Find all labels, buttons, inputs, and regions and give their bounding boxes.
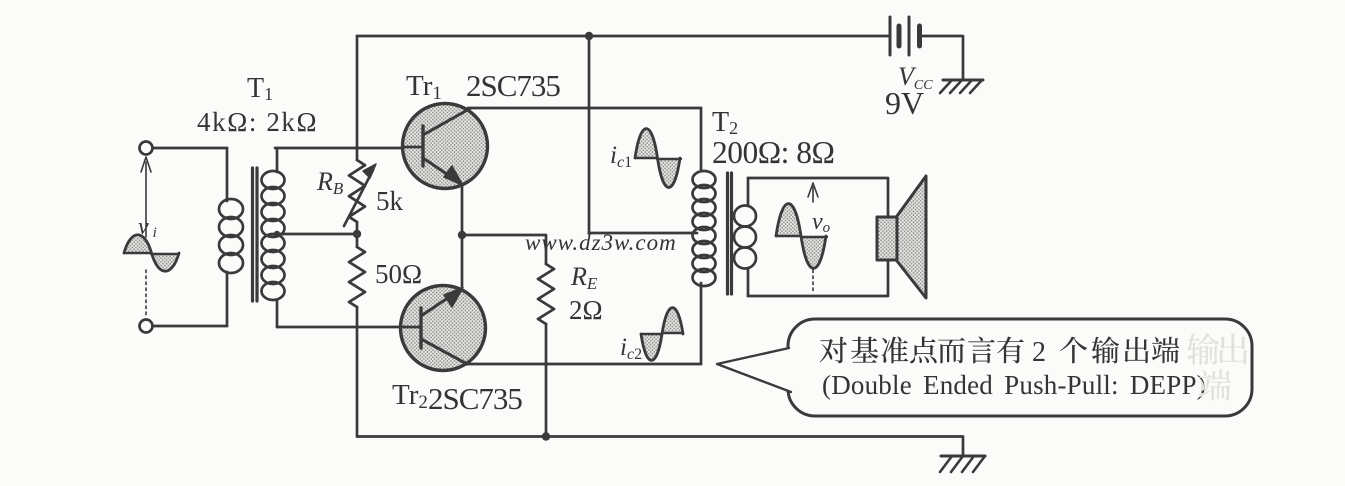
ground top right <box>940 80 983 93</box>
wire T1 center tap <box>277 233 357 236</box>
svg-text:2SC735: 2SC735 <box>466 68 560 103</box>
transistor Tr2 <box>401 286 486 371</box>
wire input bottom <box>153 325 227 328</box>
svg-text:RB: RB <box>316 167 344 198</box>
transformer T2 core <box>728 173 732 294</box>
svg-text:2: 2 <box>1032 337 1046 368</box>
svg-text:vi: vi <box>138 214 157 241</box>
ground bottom <box>940 456 985 472</box>
svg-text:T1: T1 <box>247 73 273 104</box>
svg-text:Tr1: Tr1 <box>406 70 442 104</box>
vo load box <box>748 178 888 296</box>
wire Tr1 collector <box>468 107 701 110</box>
faint watermark glyphs <box>1187 333 1219 365</box>
svg-text:RE: RE <box>570 262 598 293</box>
svg-text:www.dz3w.com: www.dz3w.com <box>525 230 677 255</box>
svg-text:Tr2: Tr2 <box>392 379 428 413</box>
vi sine <box>124 235 152 253</box>
wire battery to ground <box>921 36 963 80</box>
wire top left vertical <box>356 36 359 160</box>
resistor RE zigzag <box>538 264 554 324</box>
node emitter junction dot <box>458 231 466 239</box>
svg-text:4kΩ: 2kΩ: 4kΩ: 2kΩ <box>197 107 318 137</box>
wire RB to node <box>356 222 359 247</box>
transformer T2 primary <box>700 108 703 364</box>
resistor RB arrow <box>344 170 373 226</box>
resistor RB 5k zigzag <box>349 160 365 222</box>
node top rail dot <box>585 32 593 40</box>
svg-text:200Ω: 8Ω: 200Ω: 8Ω <box>712 135 834 170</box>
input terminal bottom <box>140 320 153 333</box>
wire input top <box>153 147 227 150</box>
ic1 sine <box>635 129 657 158</box>
wire Tr2 collector <box>467 363 701 366</box>
wire emitter node to RE <box>462 235 546 264</box>
wire Vcc feed vertical <box>589 36 697 233</box>
ic2 sine <box>641 334 662 360</box>
wire Tr1 emitter down <box>461 186 464 235</box>
battery Vcc <box>890 17 920 55</box>
transformer T1 core <box>253 168 258 301</box>
resistor 50ohm zigzag <box>349 247 365 307</box>
wire T1 secondary top to Tr1 base <box>275 147 403 150</box>
vo sine <box>776 204 801 236</box>
svg-text:5k: 5k <box>376 186 404 216</box>
svg-text:ic1: ic1 <box>610 142 632 171</box>
svg-text:50Ω: 50Ω <box>375 259 422 289</box>
transformer T1 secondary <box>276 148 279 327</box>
callout text line 1 <box>820 336 1179 363</box>
svg-text:vo: vo <box>812 209 831 236</box>
wire Tr2 emitter up <box>461 235 464 287</box>
node center tap dot <box>274 231 280 237</box>
node RB/50 junction dot <box>353 230 361 238</box>
speaker <box>877 176 926 298</box>
vo arrow dashed line <box>808 183 818 294</box>
wire top rail <box>357 35 888 38</box>
wire T1 secondary bottom to Tr2 base <box>277 326 421 329</box>
vi measure arrow <box>141 157 151 318</box>
svg-text:(Double Ended Push-Pull: DEPP): (Double Ended Push-Pull: DEPP) <box>822 370 1206 400</box>
wire bottom rail <box>357 437 963 457</box>
svg-text:2SC735: 2SC735 <box>428 381 522 416</box>
input terminal top <box>140 142 153 155</box>
transistor Tr1 <box>403 104 488 189</box>
svg-text:ic2: ic2 <box>620 334 642 363</box>
wire RE bottom <box>545 324 548 437</box>
wire 50ohm to bottom <box>356 307 359 437</box>
svg-text:2Ω: 2Ω <box>569 295 603 325</box>
transformer T1 primary <box>226 148 229 326</box>
svg-text:9V: 9V <box>885 85 924 121</box>
node RE bottom dot <box>542 432 550 440</box>
callout tail <box>717 348 795 392</box>
callout bubble <box>788 319 1252 416</box>
svg-text:T2: T2 <box>712 107 738 138</box>
transformer T2 secondary <box>747 178 750 296</box>
